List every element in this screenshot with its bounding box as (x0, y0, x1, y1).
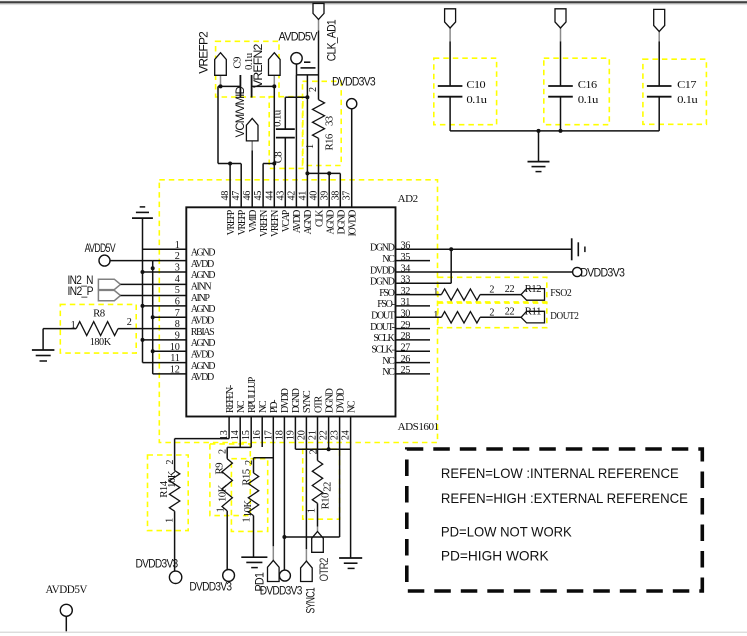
svg-text:DVDD: DVDD (335, 388, 346, 413)
svg-text:43: 43 (275, 191, 286, 201)
svg-text:DOUT: DOUT (371, 311, 395, 322)
svg-text:28: 28 (401, 331, 411, 342)
svg-text:0.1u: 0.1u (677, 94, 698, 106)
svg-text:AGND: AGND (325, 210, 336, 235)
svg-text:REFEN=HIGH :EXTERNAL REFERENCE: REFEN=HIGH :EXTERNAL REFERENCE (441, 490, 688, 506)
svg-text:9: 9 (175, 330, 180, 341)
svg-text:IOVDD: IOVDD (347, 210, 358, 237)
svg-text:C16: C16 (578, 79, 598, 91)
svg-text:VREFP: VREFP (226, 209, 237, 235)
svg-text:FSO2: FSO2 (550, 287, 571, 299)
svg-text:1: 1 (433, 310, 438, 321)
svg-text:15: 15 (241, 430, 252, 440)
svg-text:31: 31 (401, 297, 411, 308)
svg-text:30: 30 (401, 309, 411, 320)
svg-text:13: 13 (219, 430, 230, 440)
svg-text:6: 6 (175, 296, 180, 307)
svg-text:AVDD5V: AVDD5V (279, 30, 318, 44)
svg-text:37: 37 (342, 191, 353, 201)
svg-text:REFEN-: REFEN- (225, 385, 236, 413)
svg-text:12: 12 (170, 364, 180, 375)
svg-text:32: 32 (401, 286, 411, 297)
svg-text:22: 22 (322, 482, 334, 492)
svg-text:AVDD: AVDD (191, 316, 214, 327)
svg-text:NC: NC (382, 356, 395, 367)
svg-text:DVDD3V3: DVDD3V3 (189, 580, 232, 594)
svg-text:SYNC1: SYNC1 (304, 587, 318, 613)
svg-text:DGND: DGND (291, 388, 302, 413)
svg-text:R11: R11 (525, 307, 542, 318)
svg-text:33: 33 (324, 116, 336, 126)
svg-text:R15: R15 (240, 469, 252, 485)
svg-text:38: 38 (331, 191, 342, 201)
svg-text:14: 14 (230, 430, 241, 440)
svg-text:RPULLUP: RPULLUP (247, 376, 258, 413)
svg-text:10K: 10K (217, 484, 229, 502)
svg-text:AINN: AINN (191, 282, 212, 293)
svg-text:DVDD: DVDD (280, 388, 291, 413)
svg-text:FSO-: FSO- (377, 299, 394, 310)
svg-text:VREFN: VREFN (270, 210, 281, 237)
svg-text:18: 18 (274, 430, 285, 440)
svg-text:0.1u: 0.1u (578, 94, 599, 106)
svg-text:AVDD: AVDD (191, 372, 214, 383)
svg-text:DGND: DGND (370, 277, 395, 288)
svg-text:DVDD3V3: DVDD3V3 (580, 265, 625, 279)
svg-text:CLK_AD1: CLK_AD1 (324, 19, 338, 61)
svg-text:R9: R9 (213, 463, 225, 475)
svg-text:OTR: OTR (313, 395, 324, 413)
svg-text:AINP: AINP (191, 293, 211, 304)
svg-text:VCAP: VCAP (281, 209, 292, 232)
svg-text:DGND: DGND (370, 243, 395, 254)
svg-text:AGND: AGND (191, 361, 216, 372)
svg-text:41: 41 (297, 191, 308, 201)
svg-text:C10: C10 (466, 79, 485, 91)
svg-text:NC: NC (382, 254, 395, 265)
svg-text:0.1u: 0.1u (466, 94, 487, 106)
svg-text:PD=LOW NOT WORK: PD=LOW NOT WORK (441, 523, 573, 539)
svg-text:SCLK: SCLK (373, 333, 395, 344)
svg-text:2: 2 (127, 317, 132, 328)
svg-text:34: 34 (401, 263, 411, 274)
svg-text:22: 22 (319, 430, 330, 440)
svg-text:DVDD: DVDD (370, 265, 395, 276)
svg-text:1: 1 (433, 287, 438, 298)
svg-text:PD-: PD- (269, 400, 280, 413)
svg-text:AGND: AGND (191, 248, 216, 259)
svg-text:44: 44 (264, 191, 275, 201)
svg-text:NC: NC (382, 367, 395, 378)
svg-text:16: 16 (252, 430, 263, 440)
svg-text:11: 11 (170, 353, 179, 364)
svg-text:0.1u: 0.1u (271, 109, 283, 127)
svg-text:AGND: AGND (191, 338, 216, 349)
svg-text:2: 2 (308, 449, 319, 454)
svg-text:29: 29 (401, 320, 411, 331)
svg-text:33: 33 (401, 275, 411, 286)
svg-text:25: 25 (401, 365, 411, 376)
svg-text:AVDD5V: AVDD5V (46, 584, 89, 596)
svg-text:2: 2 (175, 251, 180, 262)
svg-text:1: 1 (175, 240, 180, 251)
svg-text:PD=HIGH WORK: PD=HIGH WORK (441, 547, 549, 563)
svg-text:3: 3 (175, 263, 180, 274)
svg-text:27: 27 (401, 343, 411, 354)
svg-text:PD1: PD1 (253, 572, 267, 592)
svg-text:1: 1 (307, 508, 318, 513)
svg-text:AGND: AGND (191, 270, 216, 281)
svg-text:VREFP: VREFP (237, 209, 248, 235)
svg-text:FSO: FSO (379, 288, 394, 299)
svg-text:10K: 10K (166, 470, 178, 488)
svg-text:26: 26 (401, 354, 411, 365)
svg-text:R10: R10 (320, 493, 332, 509)
svg-text:C9: C9 (232, 57, 244, 69)
svg-text:AD2: AD2 (398, 193, 418, 205)
svg-text:19: 19 (285, 430, 296, 440)
svg-text:NC: NC (236, 400, 247, 413)
svg-text:DVDD3V3: DVDD3V3 (136, 557, 179, 571)
svg-text:C17: C17 (677, 79, 697, 91)
svg-text:DVDD3V3: DVDD3V3 (332, 75, 376, 89)
svg-text:AGND: AGND (191, 304, 216, 315)
svg-text:2: 2 (165, 460, 176, 465)
svg-text:C8: C8 (272, 152, 284, 164)
svg-text:DOUT-: DOUT- (370, 322, 394, 333)
svg-text:AGND: AGND (303, 210, 314, 235)
svg-text:2: 2 (218, 449, 229, 454)
svg-text:2: 2 (489, 307, 494, 318)
svg-text:AVDD: AVDD (191, 350, 214, 361)
svg-text:IN2_P: IN2_P (68, 284, 94, 298)
svg-text:7: 7 (175, 308, 180, 319)
svg-text:45: 45 (253, 191, 264, 201)
svg-text:AVDD: AVDD (292, 210, 303, 233)
svg-text:R16: R16 (324, 133, 336, 150)
svg-text:AVDD5V: AVDD5V (85, 241, 116, 255)
svg-text:39: 39 (320, 191, 331, 201)
svg-text:46: 46 (242, 191, 253, 201)
svg-text:4: 4 (175, 274, 180, 285)
svg-text:35: 35 (401, 252, 411, 263)
svg-text:1: 1 (71, 320, 76, 331)
svg-text:VMID: VMID (248, 210, 259, 232)
svg-text:10K: 10K (242, 500, 254, 518)
svg-text:NC: NC (346, 400, 357, 413)
svg-text:2: 2 (489, 285, 494, 296)
svg-text:SCLK-: SCLK- (371, 345, 394, 356)
svg-text:ADS1601: ADS1601 (398, 421, 439, 433)
svg-text:48: 48 (220, 191, 231, 201)
svg-text:AVDD: AVDD (191, 259, 214, 270)
svg-text:21: 21 (308, 430, 319, 440)
svg-text:8: 8 (175, 319, 180, 330)
svg-text:OTR2: OTR2 (317, 557, 331, 581)
svg-text:SYNC: SYNC (302, 390, 313, 413)
svg-text:DGND: DGND (324, 388, 335, 413)
svg-text:47: 47 (231, 191, 242, 201)
svg-text:22: 22 (505, 284, 515, 295)
svg-text:R8: R8 (93, 308, 105, 320)
svg-text:180K: 180K (90, 336, 112, 348)
svg-text:1: 1 (305, 144, 316, 149)
svg-text:23: 23 (330, 430, 341, 440)
svg-text:RBIAS: RBIAS (191, 327, 214, 338)
svg-text:DGND: DGND (336, 210, 347, 235)
svg-text:22: 22 (505, 307, 515, 318)
svg-text:DOUT2: DOUT2 (550, 310, 578, 322)
svg-text:0.1u: 0.1u (243, 52, 255, 70)
svg-text:20: 20 (296, 430, 307, 440)
svg-text:REFEN=LOW :INTERNAL REFERENCE: REFEN=LOW :INTERNAL REFERENCE (441, 465, 679, 481)
svg-text:VREFP2: VREFP2 (196, 31, 210, 74)
svg-text:1: 1 (242, 517, 253, 522)
svg-text:40: 40 (309, 191, 320, 201)
svg-text:42: 42 (286, 191, 297, 201)
svg-text:CLK: CLK (314, 209, 325, 227)
svg-text:1: 1 (164, 518, 175, 523)
svg-text:10: 10 (170, 342, 180, 353)
svg-text:VCM/VMID: VCM/VMID (233, 86, 247, 138)
svg-text:2: 2 (244, 460, 255, 465)
svg-text:24: 24 (341, 430, 352, 440)
svg-text:2: 2 (308, 87, 319, 92)
svg-text:NC: NC (258, 400, 269, 413)
svg-text:17: 17 (263, 430, 274, 440)
svg-text:5: 5 (175, 285, 180, 296)
svg-text:1: 1 (216, 507, 227, 512)
svg-text:R12: R12 (525, 284, 542, 295)
svg-text:VREFN: VREFN (259, 210, 270, 237)
svg-text:36: 36 (401, 241, 411, 252)
